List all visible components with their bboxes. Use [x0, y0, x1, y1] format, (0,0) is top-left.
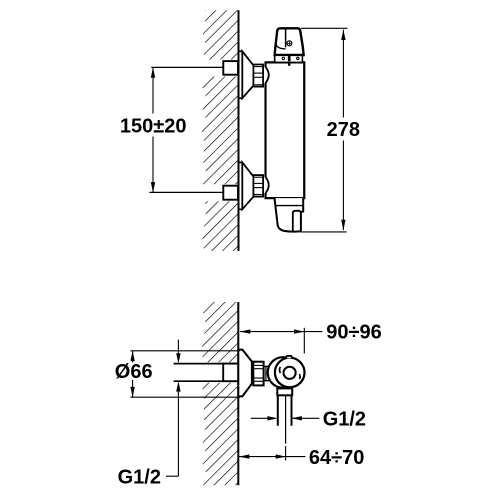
- svg-text:G1/2: G1/2: [323, 409, 366, 431]
- knob scale band: [275, 55, 303, 62]
- svg-text:150±20: 150±20: [120, 116, 187, 138]
- wall hatching (plan): [200, 300, 240, 488]
- dimension 278: [301, 27, 347, 29]
- handle front circle (plan): [275, 358, 305, 388]
- outlet ring line: [275, 205, 303, 207]
- body top edge white fill: [267, 64, 303, 198]
- supply pipe top (in wall): [151, 66, 223, 68]
- handle center cap: [284, 367, 296, 379]
- dimension Ø66: [130, 350, 239, 352]
- pipe centerline: [285, 396, 287, 444]
- union nut bottom: [253, 175, 263, 197]
- pipe fitting square bottom: [223, 186, 238, 200]
- knob inner arc: [276, 44, 286, 49]
- union nut top: [253, 65, 263, 87]
- nut facet lines bottom: [253, 176, 263, 178]
- grip notch left: [279, 367, 282, 373]
- nut facet lines (plan): [253, 364, 263, 366]
- index tick: [288, 55, 291, 61]
- outlet block (plan): [277, 388, 292, 395]
- eccentric union cone bottom: [242, 162, 253, 209]
- wall face line (top view): [238, 10, 240, 251]
- inlet port dome top: [266, 67, 269, 83]
- knob screw: [287, 41, 292, 46]
- valve body rear circle (plan): [268, 357, 299, 388]
- grip notch right: [298, 374, 301, 379]
- leader G1/2 (wall pipe): [177, 340, 179, 354]
- pipe fitting square (plan): [223, 364, 238, 382]
- thermostat knob: [275, 28, 304, 55]
- index dot: [288, 63, 291, 66]
- escutcheon cone (plan): [238, 350, 252, 397]
- union nut (plan): [253, 362, 263, 386]
- eccentric union flange top: [239, 51, 243, 98]
- dimension 64÷70: [239, 456, 286, 458]
- eccentric union cone top: [242, 51, 253, 98]
- handle top tab: [286, 356, 292, 358]
- valve main body: [266, 62, 305, 198]
- supply pipe (plan): [174, 363, 239, 365]
- supply pipe bottom (in wall): [149, 191, 223, 193]
- outlet section: [275, 198, 304, 232]
- outlet nozzle: [293, 211, 301, 232]
- wall face line (plan): [237, 302, 239, 485]
- band dot left: [282, 57, 284, 59]
- dimension 150±20: [152, 67, 154, 113]
- band dot right: [297, 57, 299, 59]
- knob inner contour line: [285, 30, 287, 48]
- svg-text:278: 278: [327, 119, 360, 141]
- inlet port dome bottom: [266, 177, 269, 193]
- dimension G1/2 (shower pipe): [251, 417, 268, 419]
- svg-text:G1/2: G1/2: [118, 467, 161, 489]
- svg-text:Ø66: Ø66: [115, 361, 153, 383]
- nut facet lines top: [253, 66, 263, 68]
- neck lines: [264, 365, 272, 367]
- svg-text:64÷70: 64÷70: [309, 447, 364, 469]
- svg-text:90÷96: 90÷96: [326, 321, 381, 343]
- wall hatching (top view): [200, 8, 240, 253]
- eccentric union flange bottom: [239, 162, 243, 209]
- pipe fitting square top: [223, 61, 238, 75]
- shower pipe (plan): [277, 395, 279, 425]
- dimension 90÷96: [240, 331, 304, 333]
